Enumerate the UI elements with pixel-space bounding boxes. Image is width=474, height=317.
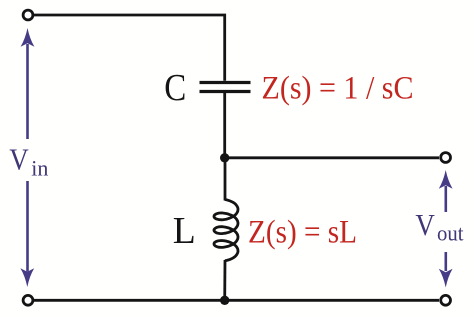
Vout arrow up head [439,170,453,189]
svg-text:out: out [437,221,464,246]
svg-text:in: in [31,155,48,180]
terminal Vout+ open circle [441,153,451,163]
node A junction dot [220,153,229,162]
Vin arrow lower shaft [26,181,29,272]
wire: node A to Vout+ terminal [225,156,439,159]
svg-text:Z(s) = 1 / sC: Z(s) = 1 / sC [262,71,414,107]
node B junction dot [220,296,229,305]
terminal Vin+ open circle [23,10,33,20]
Vin arrow up head [21,28,35,47]
wire: capacitor to node A [223,93,226,158]
svg-text:V: V [415,207,435,242]
wire bottom: Vin- to Vout- [34,299,439,302]
svg-text:V: V [9,142,29,177]
Vout arrow down head [439,269,453,288]
Vin arrow down head [20,268,34,287]
Vout arrow lower shaft [444,252,447,271]
Vin arrow upper shaft [26,44,29,139]
wire top: Vin+ to capacitor [34,15,225,81]
wire: inductor to node B [223,260,226,300]
inductor L1 coil [214,200,238,261]
wire: node A to inductor [224,158,227,201]
capacitor C1 top plate [200,81,251,84]
terminal Vout- open circle [441,295,451,305]
svg-text:C: C [164,67,186,109]
svg-text:Z(s) = sL: Z(s) = sL [248,215,357,251]
capacitor C1 bottom plate [200,90,251,93]
terminal Vin- open circle [23,295,33,305]
svg-text:L: L [173,210,196,252]
Vout arrow upper shaft [444,186,447,212]
